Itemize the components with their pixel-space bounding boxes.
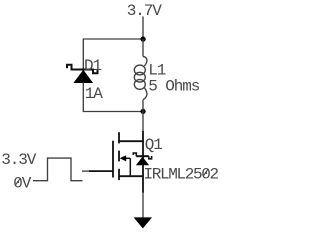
wire 3.7V to top junction (142, 17, 144, 40)
junction node top (141, 37, 146, 42)
svg-text:3.3V: 3.3V (1, 151, 37, 169)
svg-text:1A: 1A (85, 85, 104, 103)
diode D1 cathode bar (schottky) (67, 65, 98, 73)
slashed zero mark IRLML2502 (203, 169, 208, 176)
transistor Q1 body diode bar (133, 153, 151, 159)
diode D1 anode triangle (73, 70, 93, 83)
wire junction to drain pin (142, 112, 144, 132)
transistor Q1 drain-source line (142, 141, 144, 176)
transistor Q1 source pin (119, 176, 143, 193)
transistor Q1 channel dashes (118, 132, 120, 180)
transistor Q1 gate bar (112, 141, 114, 178)
transistor Q1 gate pin (89, 170, 113, 172)
wire top rail (83, 39, 143, 70)
svg-text:D1: D1 (84, 57, 102, 75)
transistor Q1 drain pin (119, 131, 143, 141)
slashed zero mark 0V (15, 178, 20, 185)
transistor Q1 body diode triangle (136, 157, 149, 165)
waveform pulse trace (33, 158, 83, 181)
transistor Q1 body connection (129, 158, 131, 176)
ground symbol (134, 217, 152, 228)
svg-text:IRLML2502: IRLML2502 (144, 165, 219, 183)
svg-text:3.7V: 3.7V (127, 2, 163, 20)
wire source to ground (142, 193, 144, 219)
inductor L1 coil (134, 39, 147, 112)
svg-text:Q1: Q1 (145, 136, 163, 154)
wire gate (82, 170, 90, 172)
junction node bottom (141, 109, 146, 114)
waveform pulse (33, 158, 83, 181)
transistor Q1 body arrow (120, 155, 131, 161)
wire diode branch lower and bottom rail (83, 83, 143, 112)
svg-text:5 Ohms: 5 Ohms (148, 77, 200, 95)
